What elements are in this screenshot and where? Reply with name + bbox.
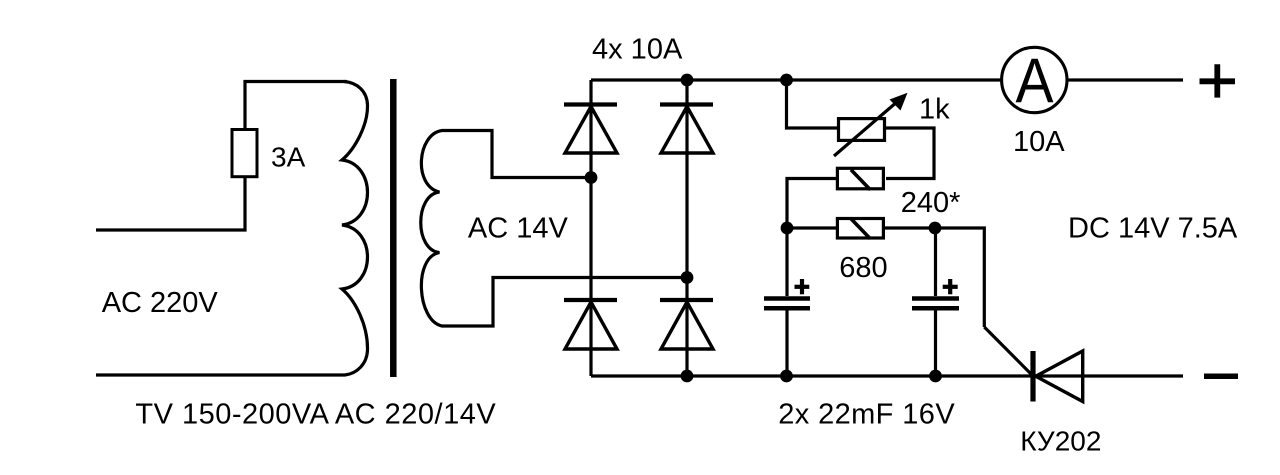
- svg-text:AC 14V: AC 14V: [468, 213, 569, 245]
- wire C1 to bottom rail: [785, 310, 788, 376]
- resistor R2 slash: [851, 170, 870, 190]
- plus terminal: [1200, 64, 1236, 97]
- wire fuse to primary top: [245, 82, 347, 129]
- wire top rail to potentiometer: [787, 80, 838, 128]
- svg-text:DC 14V 7.5A: DC 14V 7.5A: [1068, 213, 1238, 245]
- wire pot right loop: [886, 128, 934, 179]
- wire top rail right of ammeter: [1068, 78, 1183, 81]
- svg-text:240*: 240*: [901, 187, 961, 219]
- ammeter U1: [1002, 47, 1067, 112]
- capacitor C1 plus: [795, 279, 810, 294]
- wire node B to capacitor C2: [934, 228, 937, 296]
- wire top rail: [591, 78, 1001, 81]
- transformer TV primary winding: [96, 82, 368, 376]
- wire AC input top: [96, 178, 245, 230]
- node dot top rail pot: [780, 74, 793, 87]
- thyristor gate diagonal: [984, 327, 1031, 375]
- resistor R3 slash: [851, 219, 870, 239]
- node dot mid-left: [585, 171, 598, 184]
- node B dot: [929, 222, 942, 235]
- wire R3 to node B: [885, 226, 935, 229]
- node dot bottom rail D4: [681, 370, 694, 383]
- resistor R2 240*: [837, 168, 883, 189]
- svg-text:3A: 3A: [271, 142, 306, 173]
- svg-text:10A: 10A: [1013, 126, 1065, 158]
- resistor R3 680: [837, 219, 883, 239]
- svg-text:A: A: [1016, 46, 1054, 116]
- wire node B to thyristor gate: [935, 228, 984, 327]
- node dot bottom rail C2: [929, 370, 942, 383]
- svg-text:2x 22mF 16V: 2x 22mF 16V: [778, 398, 955, 430]
- svg-text:КУ202: КУ202: [1020, 426, 1101, 457]
- thyristor VS1 KU202: [1033, 351, 1083, 402]
- svg-text:AC 220V: AC 220V: [102, 287, 219, 319]
- svg-text:1k: 1k: [919, 94, 950, 126]
- node dot bottom rail C1: [780, 370, 793, 383]
- wire bottom rail: [591, 374, 1183, 377]
- diode D1: [564, 80, 617, 178]
- capacitor C2 plus: [943, 279, 958, 294]
- node A dot: [781, 222, 794, 235]
- wire R2 to node A: [787, 179, 836, 229]
- diode D4: [660, 278, 713, 377]
- svg-text:4x 10A: 4x 10A: [592, 34, 683, 66]
- wire node A to R3: [787, 226, 836, 229]
- svg-text:680: 680: [839, 252, 887, 284]
- minus terminal: [1204, 374, 1238, 380]
- capacitor C2 plates: [912, 296, 959, 301]
- node dot mid-right: [681, 271, 694, 284]
- diode D3: [564, 178, 617, 377]
- wire node A to capacitor C1: [785, 228, 788, 296]
- capacitor C1 plates: [764, 296, 810, 301]
- svg-text:TV 150-200VA AC 220/14V: TV 150-200VA AC 220/14V: [135, 399, 496, 431]
- potentiometer R1 1k: [839, 119, 885, 141]
- wire C2 to bottom rail: [934, 310, 937, 376]
- diode D2: [660, 80, 713, 278]
- transformer core: [390, 79, 397, 377]
- node dot top rail D2: [681, 74, 694, 87]
- potentiometer arrow: [834, 101, 898, 156]
- transformer secondary winding: [421, 131, 687, 327]
- fuse F1 3A: [232, 130, 257, 177]
